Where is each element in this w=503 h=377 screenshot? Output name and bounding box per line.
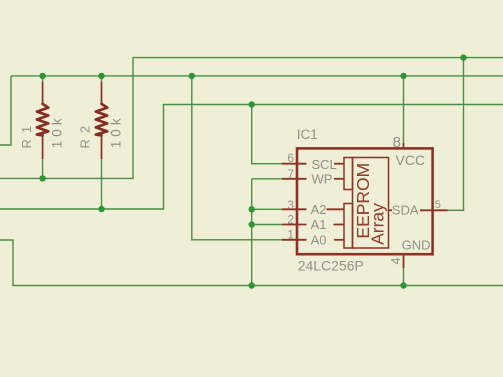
- svg-text:4: 4: [389, 257, 403, 264]
- svg-text:24LC256P: 24LC256P: [298, 258, 364, 274]
- svg-text:Array: Array: [368, 203, 388, 245]
- svg-text:1: 1: [287, 228, 294, 242]
- svg-text:2: 2: [287, 213, 294, 227]
- svg-text:8: 8: [393, 134, 401, 151]
- svg-text:IC1: IC1: [297, 127, 318, 142]
- svg-text:R1: R1: [19, 120, 34, 149]
- svg-text:VCC: VCC: [396, 152, 426, 168]
- svg-text:WP: WP: [312, 171, 333, 186]
- svg-text:A0: A0: [311, 232, 327, 247]
- svg-text:GND: GND: [402, 237, 431, 252]
- svg-text:7: 7: [287, 167, 294, 181]
- svg-text:SCL: SCL: [312, 157, 337, 172]
- svg-text:R2: R2: [78, 120, 93, 149]
- svg-text:10k: 10k: [50, 114, 65, 148]
- svg-text:A1: A1: [311, 217, 327, 232]
- svg-text:10k: 10k: [109, 114, 124, 148]
- svg-text:A2: A2: [311, 202, 327, 217]
- svg-text:SDA: SDA: [392, 203, 419, 218]
- svg-text:6: 6: [287, 151, 294, 165]
- svg-text:3: 3: [287, 198, 294, 212]
- svg-text:5: 5: [435, 199, 441, 211]
